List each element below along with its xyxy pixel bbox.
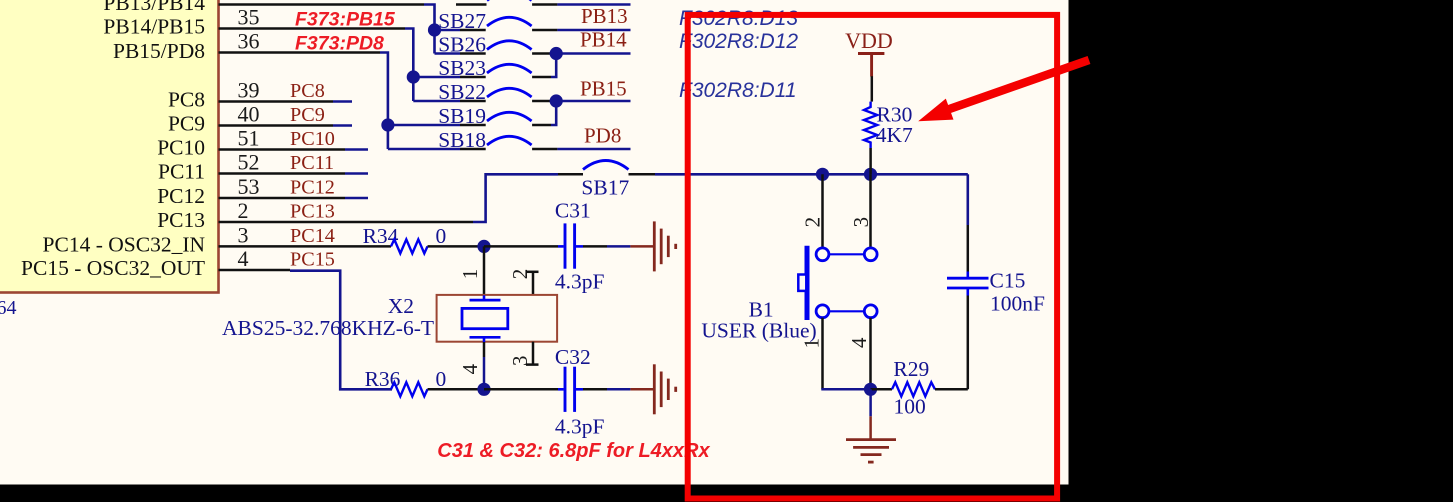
svg-text:F302R8:D11: F302R8:D11 (679, 79, 797, 102)
solder bridge SB26 (435, 33, 552, 57)
junction node button pin3 (864, 168, 877, 181)
svg-text:PC8: PC8 (290, 80, 325, 102)
svg-text:PC10: PC10 (290, 128, 335, 150)
solder bridge SB28 top cropped row (456, 0, 631, 5)
pin 3 line PC14 (219, 245, 392, 248)
svg-text:53: 53 (238, 174, 260, 199)
button B1 actuator (798, 246, 807, 320)
resistor R36 (0 ohm) (365, 367, 482, 396)
crystal X2 body box (437, 295, 557, 342)
svg-text:PC13: PC13 (157, 208, 205, 232)
junction node SB23 left (407, 70, 420, 83)
svg-text:3: 3 (238, 223, 249, 248)
svg-text:PB13/PB14: PB13/PB14 (103, 0, 205, 15)
pin 4 line PC15 (219, 269, 291, 272)
svg-text:PB14: PB14 (580, 28, 627, 52)
svg-text:R34: R34 (363, 224, 399, 248)
junction node X2 pin4 (477, 383, 490, 396)
svg-text:F302R8:D12: F302R8:D12 (679, 30, 798, 53)
svg-text:PC9: PC9 (168, 112, 205, 136)
svg-text:35: 35 (238, 5, 260, 30)
svg-text:PB15/PD8: PB15/PD8 (113, 39, 205, 63)
capacitor C32 (555, 345, 605, 439)
junction node PB14 (550, 47, 563, 60)
X2 pin2 stub (526, 272, 539, 295)
svg-text:PB14/PB15: PB14/PB15 (103, 15, 205, 39)
junction node PB15 (550, 94, 563, 107)
svg-text:PC13: PC13 (290, 201, 335, 223)
svg-text:PC14: PC14 (290, 225, 335, 247)
wire R30 to node (869, 148, 872, 174)
svg-text:PC11: PC11 (158, 160, 205, 184)
wire X2 pin1 (483, 246, 486, 295)
svg-text:X2: X2 (388, 294, 414, 318)
pin 36 line (219, 51, 381, 54)
svg-text:C31 & C32: 6.8pF for L4xxRx: C31 & C32: 6.8pF for L4xxRx (437, 440, 710, 462)
solder bridge SB23 (413, 56, 551, 80)
wire VDD to R30 (871, 76, 874, 101)
black mask bottom (0, 485, 1453, 502)
solder bridge SB19 (388, 104, 551, 128)
solder bridge SB22 (413, 80, 551, 104)
pin 39 line PC8 (219, 100, 353, 103)
svg-text:100nF: 100nF (990, 292, 1045, 316)
svg-text:4K7: 4K7 (876, 123, 913, 147)
svg-text:R29: R29 (893, 357, 929, 381)
wire pin34 to SB27/SB26 (424, 5, 435, 54)
ground at C31 (sideways) (630, 221, 675, 271)
pin 52 line PC11 (219, 172, 369, 175)
svg-text:F302R8:D13: F302R8:D13 (679, 7, 798, 30)
pin 2 line PC13 (219, 221, 474, 224)
resistor R29 (horizontal zigzag) (871, 388, 893, 391)
wire SB19 out up to PB15 (551, 101, 556, 125)
svg-text:52: 52 (238, 150, 260, 175)
svg-text:C15: C15 (990, 269, 1026, 293)
resistor R34 (0 ohm) (363, 224, 482, 253)
wire net PB14 (551, 52, 631, 55)
svg-text:2: 2 (508, 269, 532, 280)
resistor R30 (vertical zigzag) (864, 102, 877, 148)
svg-text:PC11: PC11 (290, 152, 334, 174)
ground at C32 (sideways) (630, 364, 675, 414)
svg-text:F373:PD8: F373:PD8 (295, 33, 384, 55)
pin 34 line (PB13/PB14) (219, 3, 425, 6)
wire net PB15 (551, 100, 631, 103)
wire SB23 out up to PB14 (551, 54, 556, 78)
red annotation arrow (918, 60, 1089, 121)
svg-text:PC12: PC12 (157, 184, 205, 208)
solder bridge SB27 (435, 9, 558, 33)
svg-text:64: 64 (0, 297, 17, 319)
svg-text:C31: C31 (555, 199, 591, 223)
capacitor C15 (947, 278, 989, 288)
svg-text:4.3pF: 4.3pF (555, 270, 605, 294)
svg-text:40: 40 (238, 102, 260, 127)
power symbol VDD (845, 28, 893, 77)
svg-text:1: 1 (458, 269, 482, 280)
pin 51 line PC10 (219, 148, 369, 151)
svg-text:PC10: PC10 (157, 136, 205, 160)
wire PC15 down to R36 (290, 271, 392, 390)
pin 40 line PC9 (219, 124, 353, 127)
junction node SB19 left (381, 118, 394, 131)
svg-text:3: 3 (849, 217, 873, 228)
svg-text:51: 51 (238, 126, 260, 151)
button B1 pin2 wire (821, 174, 824, 248)
svg-text:PC15 - OSC32_OUT: PC15 - OSC32_OUT (21, 256, 205, 280)
svg-text:SB17: SB17 (581, 175, 629, 199)
svg-text:4: 4 (847, 337, 871, 348)
svg-text:2: 2 (801, 217, 825, 228)
wire C15 bottom (966, 288, 969, 296)
wire to C32 (484, 388, 558, 391)
svg-text:PC15: PC15 (290, 249, 335, 271)
svg-text:36: 36 (238, 29, 260, 54)
wire C31 to ground (583, 245, 607, 248)
X2 pin3 stub (526, 342, 539, 365)
wire pin36 to SB19/SB18 (380, 53, 388, 150)
wire pin35 to SB23/SB22 (405, 29, 413, 102)
svg-text:VDD: VDD (845, 28, 893, 53)
wire PC13 up to SB17 (473, 174, 558, 222)
wire net PD8 (557, 148, 630, 151)
solder bridge SB17 (558, 161, 655, 200)
IC block U5 (yellow sheet symbol) (0, 0, 219, 293)
pin 35 line (219, 27, 406, 30)
svg-text:PB13: PB13 (581, 4, 628, 28)
svg-text:PC9: PC9 (290, 104, 325, 126)
button B1 pin4 wire (869, 318, 872, 390)
background sheet (0, 0, 1069, 485)
ground at B1 (846, 389, 896, 462)
svg-text:2: 2 (238, 198, 249, 223)
capacitor C31 (555, 199, 605, 294)
svg-text:0: 0 (436, 367, 447, 391)
wire down to C15 (966, 174, 969, 225)
svg-text:4.3pF: 4.3pF (555, 415, 605, 439)
svg-text:C32: C32 (555, 345, 591, 369)
pin 53 line PC12 (219, 197, 369, 200)
svg-text:4: 4 (238, 246, 249, 271)
wire SB17 to button node (655, 173, 968, 176)
svg-text:ABS25-32.768KHZ-6-T: ABS25-32.768KHZ-6-T (222, 316, 434, 340)
wire net PB13 (557, 29, 630, 32)
button B1 pin1 wire (821, 318, 824, 390)
wire to C31 (484, 245, 558, 248)
svg-text:F373:PB15: F373:PB15 (295, 9, 396, 31)
svg-text:PC12: PC12 (290, 177, 335, 199)
crystal X2 symbol (462, 295, 508, 342)
svg-text:PC8: PC8 (168, 88, 205, 112)
junction node ground (864, 383, 877, 396)
solder bridge SB18 (388, 128, 558, 152)
junction node SB27 left (428, 23, 441, 36)
svg-text:39: 39 (238, 78, 260, 103)
svg-text:100: 100 (894, 395, 926, 419)
button B1 contacts (816, 248, 877, 318)
black mask right (1069, 0, 1453, 502)
wire C32 to ground (583, 388, 607, 391)
svg-text:PB15: PB15 (580, 76, 627, 100)
wire X2 pin4 (483, 342, 486, 357)
svg-text:4: 4 (458, 363, 482, 374)
svg-text:PD8: PD8 (584, 124, 621, 148)
junction node button pin2 (816, 168, 829, 181)
svg-text:1: 1 (800, 338, 824, 349)
red highlight box (688, 15, 1057, 499)
svg-text:0: 0 (436, 224, 447, 248)
junction node X2 pin1 (477, 240, 490, 253)
button B1 pin3 wire (869, 174, 872, 248)
svg-text:PC14 - OSC32_IN: PC14 - OSC32_IN (43, 232, 206, 256)
